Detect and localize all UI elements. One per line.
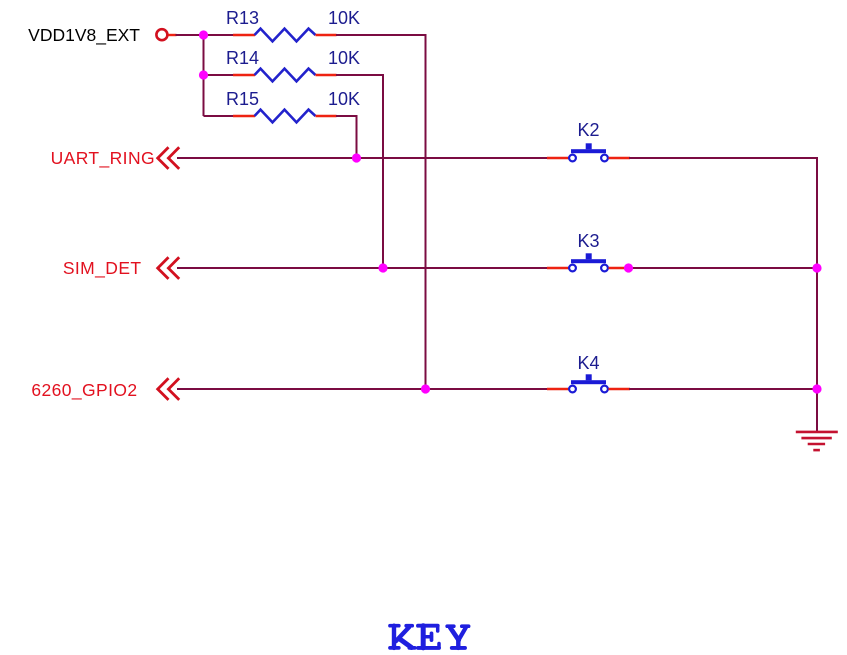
wire to R15 (204, 115, 235, 117)
wire 6260_GPIO2 row (177, 388, 549, 390)
svg-text:UART_RING: UART_RING (51, 148, 155, 169)
wire VDD circle to node (176, 34, 235, 36)
svg-text:SIM_DET: SIM_DET (63, 258, 142, 279)
svg-text:K3: K3 (578, 231, 600, 251)
junction R15 to UART_RING net (352, 153, 361, 162)
wire UART_RING row (177, 157, 549, 159)
wire to R14 (204, 74, 235, 76)
junction K3 output (624, 263, 633, 272)
power pin red stub (168, 34, 176, 36)
wire left vertical bus (203, 35, 205, 116)
svg-text:6260_GPIO2: 6260_GPIO2 (31, 380, 137, 401)
svg-text:K2: K2 (578, 120, 600, 140)
wire R13 right to vertical (336, 35, 426, 389)
svg-text:R15: R15 (226, 89, 259, 109)
Y (447, 624, 454, 628)
svg-text:R13: R13 (226, 8, 259, 28)
switch K4 (547, 353, 630, 392)
svg-text:K4: K4 (578, 353, 600, 373)
resistor R15 (226, 89, 360, 122)
wire R14 right to vertical (336, 75, 383, 268)
wire K2 to right rail (629, 157, 818, 159)
ground (796, 432, 838, 450)
svg-text:10K: 10K (328, 8, 360, 28)
switch K3 (547, 231, 630, 271)
wire K4 to right rail (629, 388, 818, 390)
resistor R14 (226, 48, 360, 81)
wire K3 to right rail (629, 267, 818, 269)
svg-text:10K: 10K (328, 89, 360, 109)
port UART_RING (51, 147, 180, 169)
junction R13 to 6260_GPIO2 net (421, 384, 430, 393)
K (390, 624, 399, 628)
svg-text:R14: R14 (226, 48, 259, 68)
junction SIM_DET row at ground rail (812, 263, 821, 272)
wire SIM_DET row (177, 267, 549, 269)
title KEY (390, 626, 469, 648)
junction VDD node at R14 (199, 70, 208, 79)
port SIM_DET (63, 257, 179, 279)
svg-text:10K: 10K (328, 48, 360, 68)
switch K2 (547, 120, 630, 161)
resistor R13 (226, 8, 360, 41)
svg-text:VDD1V8_EXT: VDD1V8_EXT (28, 25, 140, 46)
wire R15 right to vertical (336, 116, 357, 158)
junction 6260_GPIO2 row at ground rail (812, 384, 821, 393)
E (418, 624, 438, 628)
junction VDD node at R13 (199, 30, 208, 39)
junction R14 to SIM_DET net (378, 263, 387, 272)
power pin circle (156, 29, 167, 40)
wire right rail (816, 158, 818, 431)
port 6260_GPIO2 (31, 378, 179, 401)
